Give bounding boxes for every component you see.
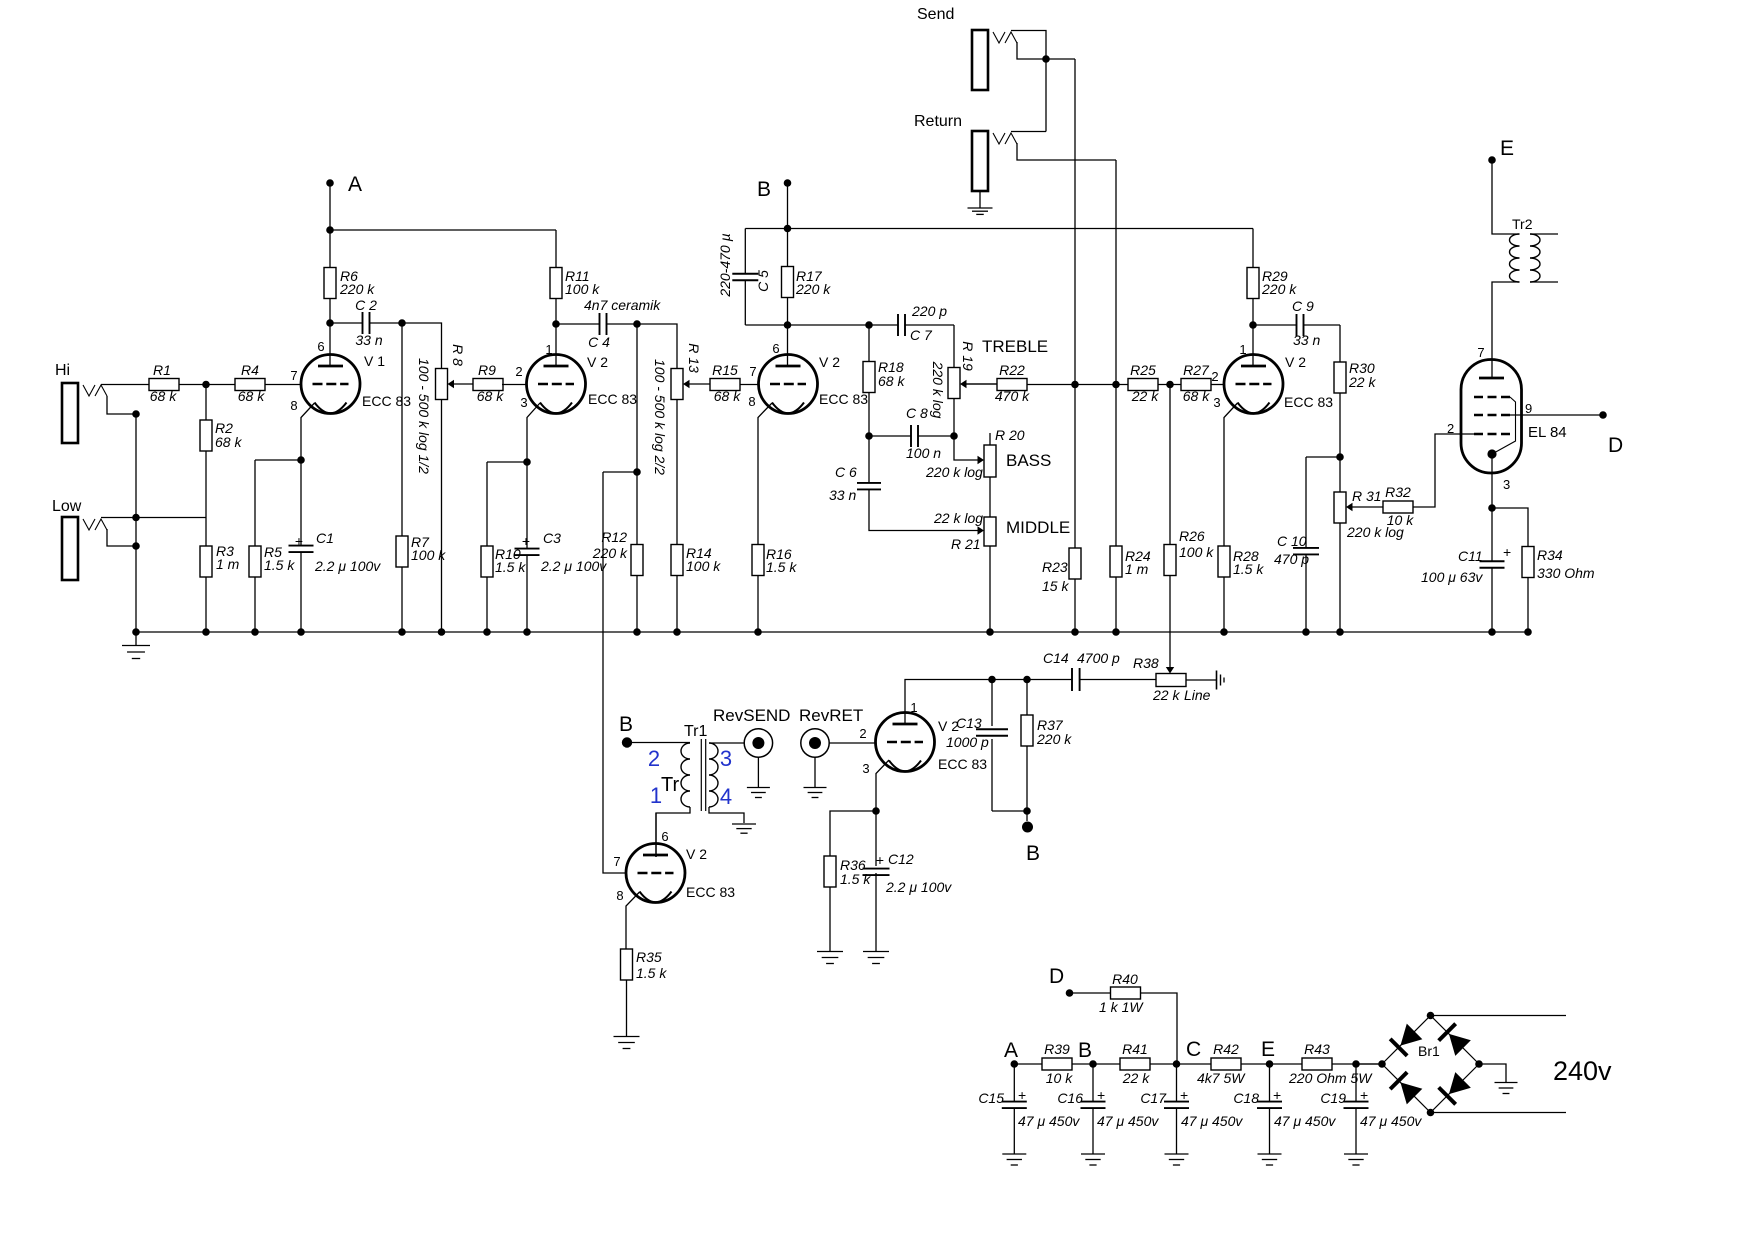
node C8 left junction — [865, 432, 873, 440]
wire R22 to R25 rail — [1027, 384, 1128, 386]
svg-text:68 k: 68 k — [714, 388, 741, 404]
capacitor C9 (33 n) — [1253, 324, 1297, 326]
svg-text:V 1: V 1 — [364, 353, 385, 369]
node bus R8 — [438, 628, 446, 636]
wire V2e pin1 to C14 row — [905, 680, 1072, 725]
svg-text:R12: R12 — [601, 529, 627, 545]
capacitor C11 — [1491, 508, 1493, 561]
svg-text:7: 7 — [749, 364, 756, 379]
svg-text:68 k: 68 k — [1183, 388, 1210, 404]
svg-text:22 k: 22 k — [1152, 687, 1180, 703]
svg-text:6: 6 — [661, 829, 668, 844]
svg-text:C12: C12 — [888, 851, 914, 867]
svg-text:10 k: 10 k — [1387, 512, 1414, 528]
resistor R9 — [473, 379, 503, 391]
transformer Tr1 primary — [681, 743, 690, 807]
svg-text:47 μ 450v: 47 μ 450v — [1018, 1113, 1080, 1129]
resistor R12 — [636, 472, 638, 545]
bridge Br1 outline — [1382, 1016, 1479, 1113]
node bus R12 — [633, 628, 641, 636]
node bus C3 — [523, 628, 531, 636]
jack RevRET — [801, 729, 829, 757]
svg-text:1 m: 1 m — [1125, 561, 1149, 577]
node bus R7 — [398, 628, 406, 636]
svg-text:330 Ohm: 330 Ohm — [1537, 565, 1595, 581]
svg-text:R27: R27 — [1183, 362, 1210, 378]
svg-text:C11: C11 — [1458, 548, 1483, 564]
svg-text:2: 2 — [515, 364, 522, 379]
svg-text:C 2: C 2 — [355, 297, 377, 313]
resistor R18 — [868, 325, 870, 362]
node R37 bottom junction — [1023, 807, 1031, 815]
svg-text:3: 3 — [862, 761, 869, 776]
ground R35 — [626, 980, 628, 1036]
svg-text:6: 6 — [772, 341, 779, 356]
wire V2a pin3 lead — [527, 403, 540, 462]
resistor R22 — [997, 379, 1027, 391]
svg-text:C19: C19 — [1320, 1090, 1346, 1106]
svg-text:1: 1 — [1239, 342, 1246, 357]
svg-text:100 n: 100 n — [906, 445, 941, 461]
svg-text:C15: C15 — [978, 1090, 1004, 1106]
node bus R28 — [1220, 628, 1228, 636]
wire R19 wiper to R22 — [967, 383, 998, 385]
tube V2 second stage (ECC 83) — [527, 355, 586, 414]
svg-text:R23: R23 — [1042, 559, 1068, 575]
jack RevSEND — [744, 729, 772, 757]
wire Low sleeve — [107, 529, 136, 546]
svg-text:4n7 ceramik: 4n7 ceramik — [584, 297, 661, 313]
svg-text:R40: R40 — [1112, 971, 1138, 987]
wire R2 top — [205, 385, 207, 421]
svg-text:1 k 1W: 1 k 1W — [1099, 999, 1144, 1015]
wire Send sleeve — [1017, 42, 1075, 59]
svg-text:+: + — [876, 852, 884, 868]
svg-text:R 20: R 20 — [995, 427, 1025, 443]
wire to R34 — [1492, 508, 1528, 547]
potentiometer R13 (volume 2) — [671, 369, 683, 400]
wire R34 to bus — [1527, 578, 1529, 633]
svg-text:R39: R39 — [1044, 1041, 1070, 1057]
svg-text:1: 1 — [545, 342, 552, 357]
transformer Tr1 secondary — [709, 743, 718, 807]
wire V2b pin6 — [787, 325, 789, 366]
wire R43 to bridge — [1332, 1063, 1382, 1065]
svg-text:220 k: 220 k — [339, 281, 375, 297]
svg-text:A: A — [1004, 1039, 1018, 1062]
wire input ground vertical — [135, 414, 137, 632]
wire V2a pin1 — [555, 324, 557, 366]
resistor R3 — [200, 546, 212, 577]
svg-text:E: E — [1500, 137, 1514, 160]
svg-text:Low: Low — [52, 498, 82, 515]
capacitor C13 (1000 p) — [991, 680, 993, 727]
node send rail junction — [1071, 381, 1079, 389]
node bridge top — [1427, 1012, 1435, 1020]
node bus R31 — [1336, 628, 1344, 636]
node bus R23 — [1071, 628, 1079, 636]
svg-text:B: B — [1078, 1039, 1092, 1062]
transformer Tr2 primary — [1510, 234, 1520, 282]
svg-text:RevRET: RevRET — [799, 706, 863, 725]
svg-text:47 μ 450v: 47 μ 450v — [1181, 1113, 1243, 1129]
node B supply — [1089, 1060, 1097, 1068]
resistor R41 — [1120, 1058, 1150, 1070]
svg-text:1.5 k: 1.5 k — [840, 871, 871, 887]
resistor R11 — [555, 230, 557, 268]
wire R5 top — [254, 460, 256, 546]
capacitor C2 — [330, 322, 363, 324]
node R25/R27 junction — [1166, 381, 1174, 389]
wire R25 to R27 — [1158, 384, 1181, 386]
tube EL84 output — [1461, 360, 1522, 474]
svg-text:1.5 k: 1.5 k — [1233, 561, 1264, 577]
svg-text:R 19: R 19 — [960, 341, 976, 371]
resistor R2 — [200, 420, 212, 451]
svg-text:2: 2 — [1211, 369, 1218, 384]
wire Send tip line — [1011, 31, 1046, 132]
resistor R34 — [1522, 547, 1534, 578]
ground input — [135, 632, 137, 645]
svg-text:MIDDLE: MIDDLE — [1006, 518, 1070, 537]
potentiometer R21 (MIDDLE) — [984, 517, 996, 546]
tube V1 (ECC 83) — [301, 355, 360, 414]
node V2c plate junction — [1249, 321, 1257, 329]
svg-text:1.5 k: 1.5 k — [264, 557, 295, 573]
capacitor C7 (220 p) — [897, 314, 899, 336]
wire EL84 pin9 to D — [1503, 414, 1603, 416]
svg-text:68 k: 68 k — [477, 388, 504, 404]
svg-text:R9: R9 — [478, 362, 496, 378]
svg-text:8: 8 — [616, 888, 623, 903]
resistor R42 — [1211, 1058, 1241, 1070]
wire R4 to V1 pin7 — [265, 384, 301, 386]
svg-text:Tr2: Tr2 — [1512, 216, 1533, 232]
potentiometer R31 — [1334, 492, 1346, 523]
resistor R35 — [621, 949, 633, 980]
capacitor C3 — [526, 462, 528, 549]
node bus R24 — [1112, 628, 1120, 636]
ground bridge — [1495, 1082, 1518, 1084]
wire R42 to E — [1241, 1063, 1270, 1065]
svg-text:8: 8 — [748, 394, 755, 409]
node bus input ground — [132, 628, 140, 636]
node reverb feed junction — [633, 468, 641, 476]
svg-text:68 k: 68 k — [878, 373, 905, 389]
svg-text:C13: C13 — [956, 715, 982, 731]
resistor R36 — [824, 856, 836, 887]
svg-text:C14: C14 — [1043, 650, 1069, 666]
wire B down — [787, 183, 789, 229]
svg-text:BASS: BASS — [1006, 451, 1051, 470]
svg-text:Tr1: Tr1 — [684, 723, 708, 740]
potentiometer R20 (BASS) — [989, 433, 991, 445]
svg-text:6: 6 — [317, 339, 324, 354]
wire R16 to bus — [757, 575, 759, 632]
wire B to R41 — [1093, 1063, 1120, 1065]
svg-text:33 n: 33 n — [829, 487, 856, 503]
node bus R34 — [1524, 628, 1532, 636]
svg-text:4: 4 — [720, 784, 732, 809]
wire Tr2 to EL84 plate — [1492, 282, 1520, 378]
svg-text:15 k: 15 k — [1042, 578, 1069, 594]
resistor R23 — [1069, 548, 1081, 579]
wire EL84 pin3 — [1491, 454, 1493, 508]
wire E to Tr2 — [1492, 160, 1520, 234]
wire B to Tr1 — [627, 742, 690, 744]
svg-text:47 μ 450v: 47 μ 450v — [1097, 1113, 1159, 1129]
svg-text:Hi: Hi — [55, 362, 70, 379]
potentiometer R38 (Line out) — [1156, 674, 1186, 687]
svg-text:1: 1 — [650, 783, 662, 808]
wire E to R43 — [1270, 1063, 1303, 1065]
capacitor C15 — [1013, 1064, 1015, 1101]
wire C2 out to R8 — [402, 323, 442, 369]
ground R36 — [829, 887, 831, 951]
resistor R32 — [1383, 501, 1413, 513]
wire C7 to R19 — [953, 325, 955, 368]
svg-text:100 μ 63v: 100 μ 63v — [1421, 569, 1483, 585]
wire R28 to bus — [1223, 577, 1225, 632]
wire V1 pin8 lead — [301, 403, 315, 460]
wire bridge left lead — [1356, 1063, 1382, 1065]
svg-text:R22: R22 — [999, 362, 1025, 378]
chassis ground Line — [1216, 671, 1218, 690]
svg-text:10 k: 10 k — [1046, 1070, 1073, 1086]
wire R10 top — [486, 462, 488, 546]
svg-text:Send: Send — [917, 6, 954, 23]
svg-text:1 m: 1 m — [216, 556, 240, 572]
diode Br1 bottom-right — [1449, 1072, 1471, 1094]
capacitor C19 — [1355, 1064, 1357, 1101]
svg-text:22 k: 22 k — [1348, 374, 1376, 390]
svg-text:C18: C18 — [1233, 1090, 1259, 1106]
svg-text:68 k: 68 k — [215, 434, 242, 450]
jack Return — [972, 131, 988, 191]
wire V2b pin8 lead — [758, 403, 772, 545]
svg-text:8: 8 — [290, 398, 297, 413]
transformer Tr2 secondary — [1530, 234, 1540, 282]
node bus C10 — [1302, 628, 1310, 636]
svg-text:R4: R4 — [241, 362, 259, 378]
wire V2d pin8 lead — [626, 892, 640, 949]
wire junction to C10 — [1306, 456, 1340, 458]
ground RevRET — [814, 757, 816, 787]
node B reverb send — [622, 737, 632, 747]
capacitor C17 — [1176, 1064, 1178, 1101]
svg-text:R 21: R 21 — [951, 536, 981, 552]
resistor R1 — [149, 379, 179, 391]
wire C4 out to R13 — [637, 324, 677, 369]
svg-text:2.2 μ 100v: 2.2 μ 100v — [314, 558, 381, 574]
wire R23 to bus — [1074, 579, 1076, 632]
wire R31 to bus — [1339, 523, 1341, 632]
svg-text:ECC 83: ECC 83 — [686, 884, 735, 900]
potentiometer R19 (TREBLE) — [948, 368, 960, 399]
node R18 top junction — [865, 321, 873, 329]
wire R30 to R31 — [1339, 393, 1341, 492]
svg-text:220 k: 220 k — [1036, 731, 1072, 747]
node Hi sleeve junction — [132, 410, 140, 418]
svg-text:220 p: 220 p — [911, 303, 947, 319]
wire R27 to V2c pin2 — [1211, 384, 1224, 386]
wire R19 to C8 junction — [953, 399, 955, 437]
svg-text:R25: R25 — [1130, 362, 1156, 378]
svg-text:C 9: C 9 — [1292, 298, 1314, 314]
potentiometer R8 (volume 1) — [436, 369, 448, 400]
wire R15 to V2b pin7 — [740, 384, 758, 386]
svg-text:3: 3 — [520, 395, 527, 410]
svg-text:470 k: 470 k — [995, 388, 1030, 404]
wire V2e pin3 lead — [876, 760, 889, 811]
svg-text:+: + — [522, 533, 530, 549]
resistor R40 — [1111, 987, 1141, 999]
svg-text:7: 7 — [613, 854, 620, 869]
svg-text:EL 84: EL 84 — [1528, 424, 1567, 441]
node C4 out — [633, 320, 641, 328]
resistor R28 — [1218, 546, 1230, 577]
wire C to R42 — [1177, 1063, 1211, 1065]
svg-text:C: C — [1186, 1038, 1201, 1061]
node B — [784, 179, 792, 187]
svg-text:R32: R32 — [1385, 484, 1411, 500]
svg-text:C 4: C 4 — [588, 334, 610, 350]
node EL84 cathode junction — [1488, 504, 1496, 512]
svg-text:+: + — [1360, 1087, 1368, 1103]
wire V2d pin6 — [655, 813, 657, 857]
svg-text:C 10: C 10 — [1277, 533, 1307, 549]
wire cathode to R10 — [487, 461, 527, 463]
tube V2 reverb driver (ECC 83) — [626, 844, 685, 903]
wire C9 to R30 — [1339, 325, 1341, 362]
wire C5 to plate node — [745, 324, 787, 326]
svg-text:C3: C3 — [543, 530, 561, 546]
node bus R10 — [483, 628, 491, 636]
node V2a plate junction — [552, 320, 560, 328]
jack Send — [972, 30, 988, 90]
wire A to R39 — [1014, 1063, 1042, 1065]
svg-text:2: 2 — [1447, 421, 1454, 436]
svg-text:C17: C17 — [1140, 1090, 1167, 1106]
svg-text:3: 3 — [1503, 477, 1510, 492]
svg-text:7: 7 — [290, 368, 297, 383]
node Low sleeve junction — [132, 542, 140, 550]
wire AC line bottom — [1431, 1112, 1567, 1114]
svg-text:R1: R1 — [153, 362, 171, 378]
svg-text:4k7 5W: 4k7 5W — [1197, 1070, 1246, 1086]
wire cathode to R5 — [255, 459, 301, 461]
svg-text:B: B — [1026, 842, 1040, 865]
svg-text:+: + — [1097, 1087, 1105, 1103]
svg-text:68 k: 68 k — [238, 388, 265, 404]
node bus R21 — [986, 628, 994, 636]
resistor R14 — [676, 400, 678, 546]
wire Hi sleeve — [107, 396, 136, 414]
wire plate node to C7 — [788, 324, 899, 326]
wire reverb drive vertical — [603, 472, 626, 873]
svg-text:R38: R38 — [1133, 655, 1159, 671]
wire send vertical — [1074, 59, 1076, 548]
node bus R16 — [754, 628, 762, 636]
wire return vertical — [1115, 160, 1117, 546]
resistor R17 — [787, 229, 789, 268]
svg-text:V 2: V 2 — [587, 354, 608, 370]
svg-text:33 n: 33 n — [355, 332, 382, 348]
svg-text:+: + — [295, 533, 303, 549]
node V2a cathode junction — [523, 458, 531, 466]
wire D to R40 — [1070, 992, 1111, 994]
wire cathode to R36 — [830, 811, 876, 856]
svg-text:B: B — [619, 713, 633, 736]
svg-text:470 p: 470 p — [1274, 551, 1309, 567]
wire R20 to R21 — [989, 477, 991, 517]
capacitor C8 (100 n) — [869, 435, 911, 437]
svg-text:R 31: R 31 — [1352, 488, 1382, 504]
wire C4 out down — [636, 324, 638, 472]
svg-text:100 k: 100 k — [686, 558, 721, 574]
wire C6 to R21 wiper — [869, 490, 978, 531]
transformer Tr1 core — [700, 739, 702, 811]
svg-text:C 5: C 5 — [755, 270, 771, 292]
svg-text:R 13: R 13 — [686, 343, 702, 373]
svg-text:220 k: 220 k — [795, 281, 831, 297]
resistor R26 — [1169, 385, 1171, 546]
svg-text:RevSEND: RevSEND — [713, 706, 790, 725]
resistor R30 — [1334, 362, 1346, 393]
node R31 top junction — [1336, 453, 1344, 461]
wire V2c pin3 lead — [1224, 403, 1238, 547]
wire R5 to bus — [254, 577, 256, 632]
wire R41 to C — [1150, 1063, 1177, 1065]
wire R24 to bus — [1115, 577, 1117, 632]
svg-text:C 6: C 6 — [835, 464, 857, 480]
svg-text:+: + — [1180, 1087, 1188, 1103]
wire R1 to R4 — [179, 384, 235, 386]
svg-text:V 2: V 2 — [686, 846, 707, 862]
capacitor C6 (33 n) — [868, 436, 870, 483]
svg-text:220 Ohm 5W: 220 Ohm 5W — [1288, 1070, 1373, 1086]
svg-text:3: 3 — [720, 746, 732, 771]
resistor R39 — [1042, 1058, 1072, 1070]
svg-text:B: B — [757, 178, 771, 201]
node Send junction — [1042, 55, 1050, 63]
node bridge left — [1378, 1060, 1386, 1068]
svg-text:ECC 83: ECC 83 — [819, 391, 868, 407]
svg-text:D: D — [1608, 434, 1623, 457]
node A supply — [1011, 1060, 1019, 1068]
svg-text:ECC 83: ECC 83 — [938, 756, 987, 772]
svg-text:220 k log: 220 k log — [925, 464, 983, 480]
wire R3 to bus — [205, 577, 207, 632]
resistor R37 — [1026, 680, 1028, 716]
tube V2 reverb recovery (ECC 83) — [876, 713, 935, 772]
wire V2c pin1 — [1252, 325, 1254, 366]
svg-text:R15: R15 — [712, 362, 738, 378]
node A — [326, 179, 334, 187]
node bus R3 — [202, 628, 210, 636]
wire Low tip line — [101, 517, 206, 519]
svg-text:4700 p: 4700 p — [1077, 650, 1120, 666]
wire R32 to EL84 pin2 — [1413, 434, 1474, 507]
svg-text:1000 p: 1000 p — [946, 734, 989, 750]
wire wiper feed to R20 — [954, 436, 978, 460]
resistor R25 — [1128, 379, 1158, 391]
node E — [1488, 156, 1496, 164]
resistor R29 — [1252, 229, 1254, 269]
wire R2 to R3 — [205, 451, 207, 546]
svg-text:C 8: C 8 — [906, 405, 928, 421]
resistor R15 — [710, 379, 740, 391]
